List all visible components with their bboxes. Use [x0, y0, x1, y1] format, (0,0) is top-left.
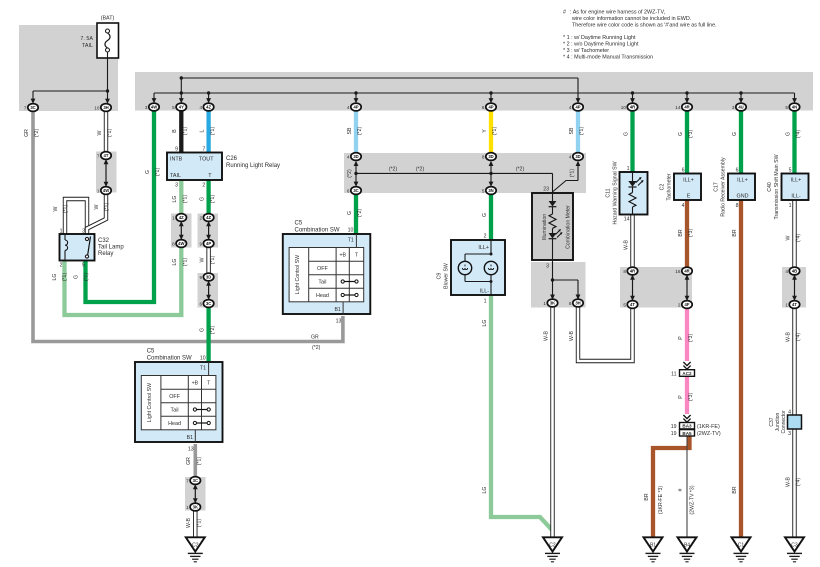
- svg-text:E: E: [687, 194, 691, 200]
- svg-text:7: 7: [24, 105, 27, 110]
- svg-text:(*2): (*2): [389, 167, 398, 173]
- svg-text:10: 10: [621, 105, 627, 110]
- svg-text:(*1): (*1): [210, 195, 216, 204]
- svg-text:8: 8: [569, 301, 572, 306]
- svg-text:C2: C2: [660, 184, 666, 191]
- svg-text:INTB: INTB: [170, 157, 183, 163]
- svg-text:2: 2: [678, 302, 681, 307]
- svg-text:3C: 3C: [30, 105, 35, 110]
- svg-text:(*1): (*1): [183, 258, 189, 267]
- svg-text:3: 3: [175, 183, 178, 189]
- svg-text:LG: LG: [482, 320, 488, 327]
- svg-text:4: 4: [347, 105, 350, 110]
- svg-text:(*1): (*1): [570, 169, 576, 178]
- svg-text:(*1): (*1): [155, 168, 161, 177]
- svg-text:P: P: [678, 336, 684, 340]
- svg-text:W: W: [785, 235, 791, 240]
- svg-text:11: 11: [671, 371, 676, 377]
- svg-text:14: 14: [624, 217, 630, 223]
- svg-text:3D: 3D: [488, 154, 493, 159]
- svg-text:4W: 4W: [178, 241, 184, 246]
- svg-text:4R: 4R: [684, 105, 689, 110]
- svg-text:BR: BR: [644, 493, 650, 500]
- svg-text:(*2): (*2): [210, 326, 216, 335]
- svg-text:(*1): (*1): [197, 519, 203, 528]
- svg-text:8: 8: [172, 241, 175, 246]
- svg-text:3: 3: [546, 264, 549, 270]
- svg-text:B1: B1: [334, 307, 340, 313]
- svg-text:3K: 3K: [193, 505, 198, 510]
- svg-text:LG: LG: [52, 274, 58, 281]
- svg-text:4: 4: [569, 105, 572, 110]
- svg-text:Light Control SW: Light Control SW: [147, 383, 153, 422]
- svg-text:4P: 4P: [206, 241, 211, 246]
- svg-text:L: L: [199, 129, 205, 132]
- svg-text:9: 9: [199, 241, 202, 246]
- svg-text:2: 2: [484, 234, 487, 240]
- svg-text:#: #: [563, 10, 566, 16]
- svg-text:(*1): (*1): [210, 127, 216, 136]
- svg-text:19: 19: [671, 424, 677, 430]
- svg-text:W: W: [53, 206, 59, 211]
- svg-text:(*1): (*1): [84, 273, 90, 282]
- svg-text:B1: B1: [650, 543, 656, 549]
- svg-text:W: W: [97, 130, 103, 135]
- svg-text:(*1): (*1): [104, 203, 110, 212]
- svg-text:4P: 4P: [575, 105, 580, 110]
- svg-text:Light Control SW: Light Control SW: [295, 255, 301, 294]
- svg-text:(*4): (*4): [796, 333, 802, 342]
- svg-text:GR: GR: [311, 335, 319, 341]
- svg-text:G: G: [785, 132, 791, 136]
- svg-text:G: G: [199, 328, 205, 332]
- svg-text:3C: 3C: [193, 478, 198, 483]
- svg-text:(*2): (*2): [516, 167, 525, 173]
- svg-text:GR: GR: [24, 129, 30, 137]
- svg-text:3C: 3C: [206, 301, 211, 306]
- svg-text:BR: BR: [732, 229, 738, 236]
- svg-text:13: 13: [336, 319, 342, 325]
- svg-text:P: P: [678, 395, 684, 399]
- svg-text:6: 6: [347, 188, 350, 193]
- svg-text:* 1 : w/ Daytime Running Light: * 1 : w/ Daytime Running Light: [563, 35, 636, 41]
- svg-text:wire color information cannot: wire color information cannot be include…: [571, 16, 691, 22]
- svg-text:C32: C32: [98, 238, 110, 244]
- svg-text:(*2): (*2): [312, 345, 321, 351]
- svg-text:4Z: 4Z: [206, 105, 211, 110]
- svg-text:4: 4: [785, 269, 788, 274]
- svg-text:3: 3: [145, 105, 148, 110]
- svg-text:14: 14: [675, 105, 681, 110]
- svg-text:* 3 : w/ Tachometer: * 3 : w/ Tachometer: [563, 48, 609, 54]
- svg-text:Blower SW: Blower SW: [444, 263, 450, 289]
- svg-text:(*3): (*3): [688, 130, 694, 139]
- svg-text:TAIL: TAIL: [82, 43, 93, 49]
- svg-text:Tail Lamp: Tail Lamp: [98, 245, 124, 251]
- svg-text:TOUT: TOUT: [199, 157, 214, 163]
- svg-text:(*1): (*1): [210, 256, 216, 265]
- svg-text:Tachometer: Tachometer: [667, 173, 673, 200]
- svg-text:1: 1: [60, 228, 63, 234]
- svg-text:5: 5: [482, 188, 485, 193]
- svg-text:G: G: [732, 132, 738, 136]
- svg-text:G: G: [73, 275, 79, 279]
- svg-text:(*3): (*3): [688, 393, 694, 402]
- svg-text:C2: C2: [192, 543, 199, 549]
- svg-text:1: 1: [543, 301, 546, 306]
- svg-text:Relay: Relay: [98, 251, 113, 257]
- svg-text:(*1): (*1): [183, 195, 189, 204]
- svg-text:4Z: 4Z: [179, 215, 184, 220]
- svg-text:4T: 4T: [630, 302, 635, 307]
- svg-text:3: 3: [788, 431, 791, 437]
- svg-text:(2WZ-TV): (2WZ-TV): [697, 431, 721, 437]
- svg-text:W: W: [94, 204, 100, 209]
- svg-text:Radio Receiver Assembly: Radio Receiver Assembly: [721, 157, 727, 217]
- svg-text:4: 4: [682, 203, 685, 209]
- svg-text:(*2): (*2): [416, 167, 425, 173]
- svg-text:Tail: Tail: [171, 408, 179, 414]
- svg-text:4N: 4N: [792, 105, 797, 110]
- svg-text:ILL+: ILL+: [683, 178, 694, 184]
- svg-text:ILL+: ILL+: [478, 245, 489, 251]
- svg-text:5: 5: [785, 105, 788, 110]
- svg-text:13: 13: [188, 447, 194, 453]
- svg-text:W-B: W-B: [785, 331, 791, 342]
- svg-text:7. 5A: 7. 5A: [80, 36, 93, 42]
- svg-text:8: 8: [482, 154, 485, 159]
- svg-text:23: 23: [543, 187, 549, 193]
- svg-text:* 2 : w/o Daytime Running Ligh: * 2 : w/o Daytime Running Light: [563, 42, 639, 48]
- svg-text:10: 10: [200, 355, 206, 361]
- svg-text:(*1): (*1): [63, 205, 69, 214]
- svg-text:ILL-: ILL-: [480, 289, 489, 295]
- svg-text:: As for engine wire harness o: : As for engine wire harness of 2WZ-TV,: [570, 10, 666, 16]
- svg-text:1: 1: [186, 505, 189, 510]
- svg-text:C26: C26: [226, 156, 238, 162]
- svg-text:B: B: [172, 129, 178, 133]
- svg-text:C9: C9: [437, 273, 443, 280]
- svg-text:(*3): (*3): [688, 334, 694, 343]
- svg-text:2: 2: [199, 215, 202, 220]
- svg-text:8: 8: [623, 269, 626, 274]
- svg-text:4U: 4U: [738, 105, 743, 110]
- svg-text:4P: 4P: [488, 105, 493, 110]
- svg-text:1: 1: [785, 302, 788, 307]
- svg-text:+B: +B: [339, 252, 346, 258]
- svg-text:C3: C3: [791, 543, 798, 549]
- svg-text:SB: SB: [347, 127, 353, 134]
- svg-text:4: 4: [569, 154, 572, 159]
- svg-text:4R: 4R: [630, 105, 635, 110]
- svg-text:Therefore wire color code is s: Therefore wire color code is shown as '#…: [572, 23, 717, 29]
- svg-text:T1: T1: [348, 238, 354, 244]
- svg-text:OFF: OFF: [169, 394, 180, 400]
- svg-text:Y: Y: [482, 129, 488, 133]
- svg-text:4F: 4F: [685, 302, 690, 307]
- svg-text:(*1): (*1): [62, 273, 68, 282]
- svg-text:+B: +B: [192, 380, 199, 386]
- svg-text:Connector: Connector: [781, 410, 787, 433]
- svg-text:Illumination: Illumination: [542, 214, 548, 240]
- svg-text:Head: Head: [316, 293, 329, 299]
- svg-text:9: 9: [175, 146, 178, 152]
- svg-text:4W: 4W: [151, 105, 157, 110]
- svg-text:T1: T1: [200, 366, 206, 372]
- svg-text:Combination SW: Combination SW: [295, 227, 340, 233]
- svg-text:6: 6: [482, 105, 485, 110]
- svg-text:7: 7: [186, 478, 189, 483]
- svg-text:(*2): (*2): [34, 129, 40, 138]
- svg-text:B4: B4: [684, 543, 690, 549]
- svg-text:(2WZ-TV *3): (2WZ-TV *3): [690, 485, 696, 514]
- svg-text:LG: LG: [172, 196, 178, 203]
- svg-text:#: #: [678, 488, 684, 491]
- svg-text:GND: GND: [737, 194, 749, 200]
- svg-text:4: 4: [347, 154, 350, 159]
- svg-text:7: 7: [202, 146, 205, 152]
- svg-text:LG: LG: [172, 259, 178, 266]
- svg-text:3H: 3H: [103, 105, 108, 110]
- svg-text:3C: 3C: [353, 188, 358, 193]
- svg-text:4R: 4R: [684, 269, 689, 274]
- svg-text:1: 1: [484, 299, 487, 305]
- svg-text:SB: SB: [569, 127, 575, 134]
- svg-text:G: G: [199, 197, 205, 201]
- svg-text:2: 2: [60, 263, 63, 269]
- svg-text:(1KR-FE): (1KR-FE): [697, 424, 720, 430]
- svg-text:4T: 4T: [104, 153, 109, 158]
- svg-text:BA3: BA3: [682, 424, 692, 429]
- svg-text:5: 5: [172, 105, 175, 110]
- svg-text:(*1): (*1): [183, 127, 189, 136]
- svg-text:(*4): (*4): [796, 130, 802, 139]
- svg-text:7: 7: [97, 153, 100, 158]
- svg-text:W-B: W-B: [569, 330, 575, 341]
- svg-text:TAIL: TAIL: [170, 173, 181, 179]
- svg-text:3D: 3D: [206, 275, 211, 280]
- svg-text:10: 10: [348, 227, 354, 233]
- svg-text:4T: 4T: [792, 302, 797, 307]
- svg-text:16: 16: [675, 269, 681, 274]
- svg-text:W: W: [199, 257, 205, 262]
- svg-text:5: 5: [623, 302, 626, 307]
- svg-text:4Z: 4Z: [206, 215, 211, 220]
- svg-text:19: 19: [671, 431, 677, 437]
- svg-text:6: 6: [736, 167, 739, 173]
- svg-text:LG: LG: [482, 487, 488, 494]
- svg-text:1: 1: [789, 203, 792, 209]
- svg-text:4: 4: [199, 105, 202, 110]
- svg-text:(*3): (*3): [688, 229, 694, 238]
- svg-text:(*4): (*4): [796, 234, 802, 243]
- svg-text:C40: C40: [767, 182, 773, 192]
- svg-text:ILL+: ILL+: [791, 178, 802, 184]
- svg-text:B1: B1: [187, 435, 193, 441]
- svg-text:C5: C5: [295, 220, 303, 226]
- svg-text:(*2): (*2): [357, 127, 363, 136]
- svg-text:C17: C17: [714, 182, 720, 192]
- svg-text:Tail: Tail: [318, 280, 326, 286]
- svg-text:(BAT): (BAT): [101, 16, 115, 22]
- svg-text:4: 4: [788, 409, 791, 415]
- svg-text:Running Light Relay: Running Light Relay: [226, 163, 280, 169]
- svg-text:1: 1: [97, 188, 100, 193]
- svg-text:AC2: AC2: [682, 371, 692, 376]
- svg-text:* 4 : Multi-mode Manual Transm: * 4 : Multi-mode Manual Transmission: [563, 55, 653, 61]
- svg-text:(*1): (*1): [107, 129, 113, 138]
- svg-text:(*1): (*1): [492, 127, 498, 136]
- svg-text:W-B: W-B: [785, 476, 791, 487]
- svg-text:3K: 3K: [550, 301, 555, 306]
- svg-text:4B: 4B: [792, 269, 797, 274]
- svg-text:3H: 3H: [575, 301, 580, 306]
- svg-text:W-B: W-B: [543, 330, 549, 341]
- svg-text:GR: GR: [186, 457, 192, 465]
- svg-text:Transmission Shift Main SW: Transmission Shift Main SW: [774, 154, 780, 219]
- svg-text:4W: 4W: [103, 188, 109, 193]
- svg-text:G: G: [482, 213, 488, 217]
- svg-text:(*1): (*1): [197, 457, 203, 466]
- svg-text:C11: C11: [606, 188, 612, 197]
- svg-text:ILL-: ILL-: [791, 194, 800, 200]
- svg-text:C5: C5: [147, 348, 155, 354]
- svg-text:5: 5: [789, 167, 792, 173]
- svg-text:BA5: BA5: [682, 431, 692, 436]
- svg-text:4P: 4P: [353, 105, 358, 110]
- svg-text:C2: C2: [549, 543, 556, 549]
- svg-text:BR: BR: [678, 229, 684, 236]
- svg-text:ILL+: ILL+: [737, 178, 748, 184]
- svg-text:W-B: W-B: [623, 239, 629, 250]
- svg-text:G: G: [678, 132, 684, 136]
- svg-text:3D: 3D: [353, 154, 358, 159]
- svg-text:Head: Head: [168, 421, 181, 427]
- svg-text:(*2): (*2): [347, 169, 353, 178]
- svg-text:W-B: W-B: [186, 517, 192, 528]
- svg-text:(1KR-FE *3): (1KR-FE *3): [658, 486, 664, 515]
- svg-text:3: 3: [732, 105, 735, 110]
- svg-text:1: 1: [627, 166, 630, 172]
- svg-text:1: 1: [172, 215, 175, 220]
- svg-text:(*4): (*4): [796, 478, 802, 487]
- svg-text:Combination Meter: Combination Meter: [566, 205, 572, 249]
- svg-text:Combination SW: Combination SW: [147, 355, 192, 361]
- svg-text:4R: 4R: [630, 269, 635, 274]
- svg-text:G: G: [347, 211, 353, 215]
- svg-text:(*2): (*2): [357, 209, 363, 218]
- svg-text:6: 6: [199, 301, 202, 306]
- svg-text:8: 8: [736, 203, 739, 209]
- svg-text:(*1): (*1): [579, 127, 585, 136]
- svg-text:G: G: [623, 132, 629, 136]
- svg-text:10: 10: [94, 105, 100, 110]
- svg-text:3N: 3N: [488, 188, 493, 193]
- svg-text:6: 6: [682, 167, 685, 173]
- svg-text:3: 3: [82, 228, 85, 234]
- svg-text:C1: C1: [738, 543, 745, 549]
- svg-text:5: 5: [82, 263, 85, 269]
- svg-text:2: 2: [202, 183, 205, 189]
- svg-text:BR: BR: [732, 486, 738, 493]
- svg-text:Hazard Warning Signal SW: Hazard Warning Signal SW: [613, 161, 619, 224]
- svg-text:4Y: 4Y: [179, 105, 184, 110]
- svg-text:3D: 3D: [575, 154, 580, 159]
- svg-text:9: 9: [199, 275, 202, 280]
- svg-text:OFF: OFF: [317, 266, 328, 272]
- svg-text:G: G: [145, 170, 151, 174]
